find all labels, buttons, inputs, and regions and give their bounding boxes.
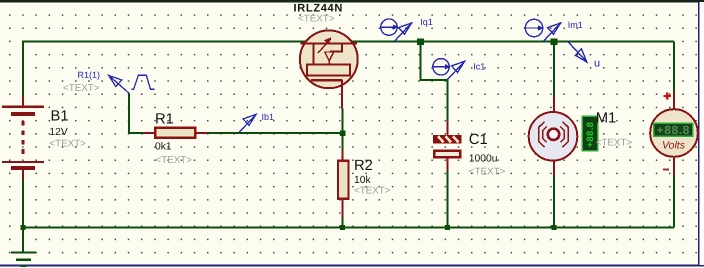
svg-text:R1(1): R1(1)	[78, 70, 101, 80]
motor rpm display	[582, 116, 597, 150]
svg-text:1000u: 1000u	[469, 154, 498, 165]
svg-text:R2: R2	[354, 158, 373, 174]
svg-text:Volts: Volts	[662, 140, 686, 152]
svg-text:u: u	[594, 58, 600, 70]
generator cursor arrow	[109, 75, 130, 93]
voltmeter plus terminal	[664, 92, 671, 99]
current probe Ic1	[433, 59, 465, 80]
white area outside sheet right	[700, 2, 704, 265]
svg-text:<TEXT>: <TEXT>	[156, 155, 193, 166]
voltmeter minus terminal	[663, 168, 669, 170]
wire gate node down to R2	[342, 109, 344, 151]
svg-text:<TEXT>: <TEXT>	[63, 83, 100, 94]
svg-text:<TEXT>: <TEXT>	[49, 138, 86, 149]
svg-text:<TEXT>: <TEXT>	[596, 137, 633, 148]
white area below sheet	[0, 267, 704, 268]
wire motor bottom to bottom rail	[553, 176, 555, 228]
svg-text:M1: M1	[596, 110, 617, 126]
voltmeter	[650, 91, 698, 176]
ground	[11, 253, 36, 267]
svg-text:Ib1: Ib1	[262, 112, 275, 122]
current probe Ib1	[239, 114, 257, 133]
svg-text:12V: 12V	[49, 127, 67, 138]
svg-text:Ic1: Ic1	[473, 61, 485, 71]
mosfet Q1 IRLZ44N	[300, 30, 358, 108]
svg-text:Iq1: Iq1	[420, 17, 433, 27]
sheet border right	[698, 2, 700, 266]
resistor R1	[144, 128, 208, 138]
wire top rail right: MOSFET to right corner	[351, 41, 674, 43]
voltage probe U	[568, 42, 587, 62]
junction top motor node	[551, 38, 558, 45]
junction R1 gate node	[340, 131, 345, 136]
wire battery bottom to ground	[22, 180, 24, 252]
svg-text:C1: C1	[469, 132, 488, 148]
wire C1 bottom to bottom rail	[447, 170, 449, 228]
current probe Im1	[525, 19, 560, 41]
wire top rail left: battery to MOSFET	[23, 42, 307, 96]
svg-text:B1: B1	[51, 109, 69, 125]
resistor R2	[338, 150, 349, 217]
wire C1 jog from top rail	[421, 42, 448, 121]
junction bottom motor node	[551, 225, 556, 230]
svg-text:<TEXT>: <TEXT>	[354, 186, 391, 197]
wire R1 to gate node	[208, 132, 343, 134]
sheet border bottom	[0, 265, 704, 267]
current probe Iq1	[381, 19, 412, 42]
wire R2 bottom to bottom rail	[342, 217, 344, 228]
capacitor C1	[433, 121, 462, 170]
wire generator to R1 row	[129, 93, 144, 133]
svg-text:+88.8: +88.8	[657, 123, 690, 137]
svg-text:0k1: 0k1	[155, 141, 172, 152]
wire right drop to voltmeter	[673, 42, 675, 91]
svg-text:R1: R1	[155, 111, 174, 127]
generator pulse waveform	[131, 75, 154, 89]
top window edge bar	[0, 0, 704, 3]
junction bottom C1 node	[445, 225, 450, 230]
wire motor top	[553, 42, 555, 97]
wire voltmeter bottom to bottom rail	[673, 176, 675, 228]
svg-text:<TEXT>: <TEXT>	[298, 13, 335, 24]
junction bottom battery node	[21, 225, 26, 230]
svg-text:Im1: Im1	[568, 20, 583, 30]
wire bottom rail	[23, 227, 674, 229]
svg-text:+88.8: +88.8	[584, 122, 595, 148]
motor M1	[529, 97, 578, 177]
junction top C1 node	[417, 38, 424, 45]
battery B1	[2, 96, 44, 180]
svg-text:<TEXT>: <TEXT>	[469, 167, 506, 178]
junction bottom R2 node	[340, 225, 345, 230]
